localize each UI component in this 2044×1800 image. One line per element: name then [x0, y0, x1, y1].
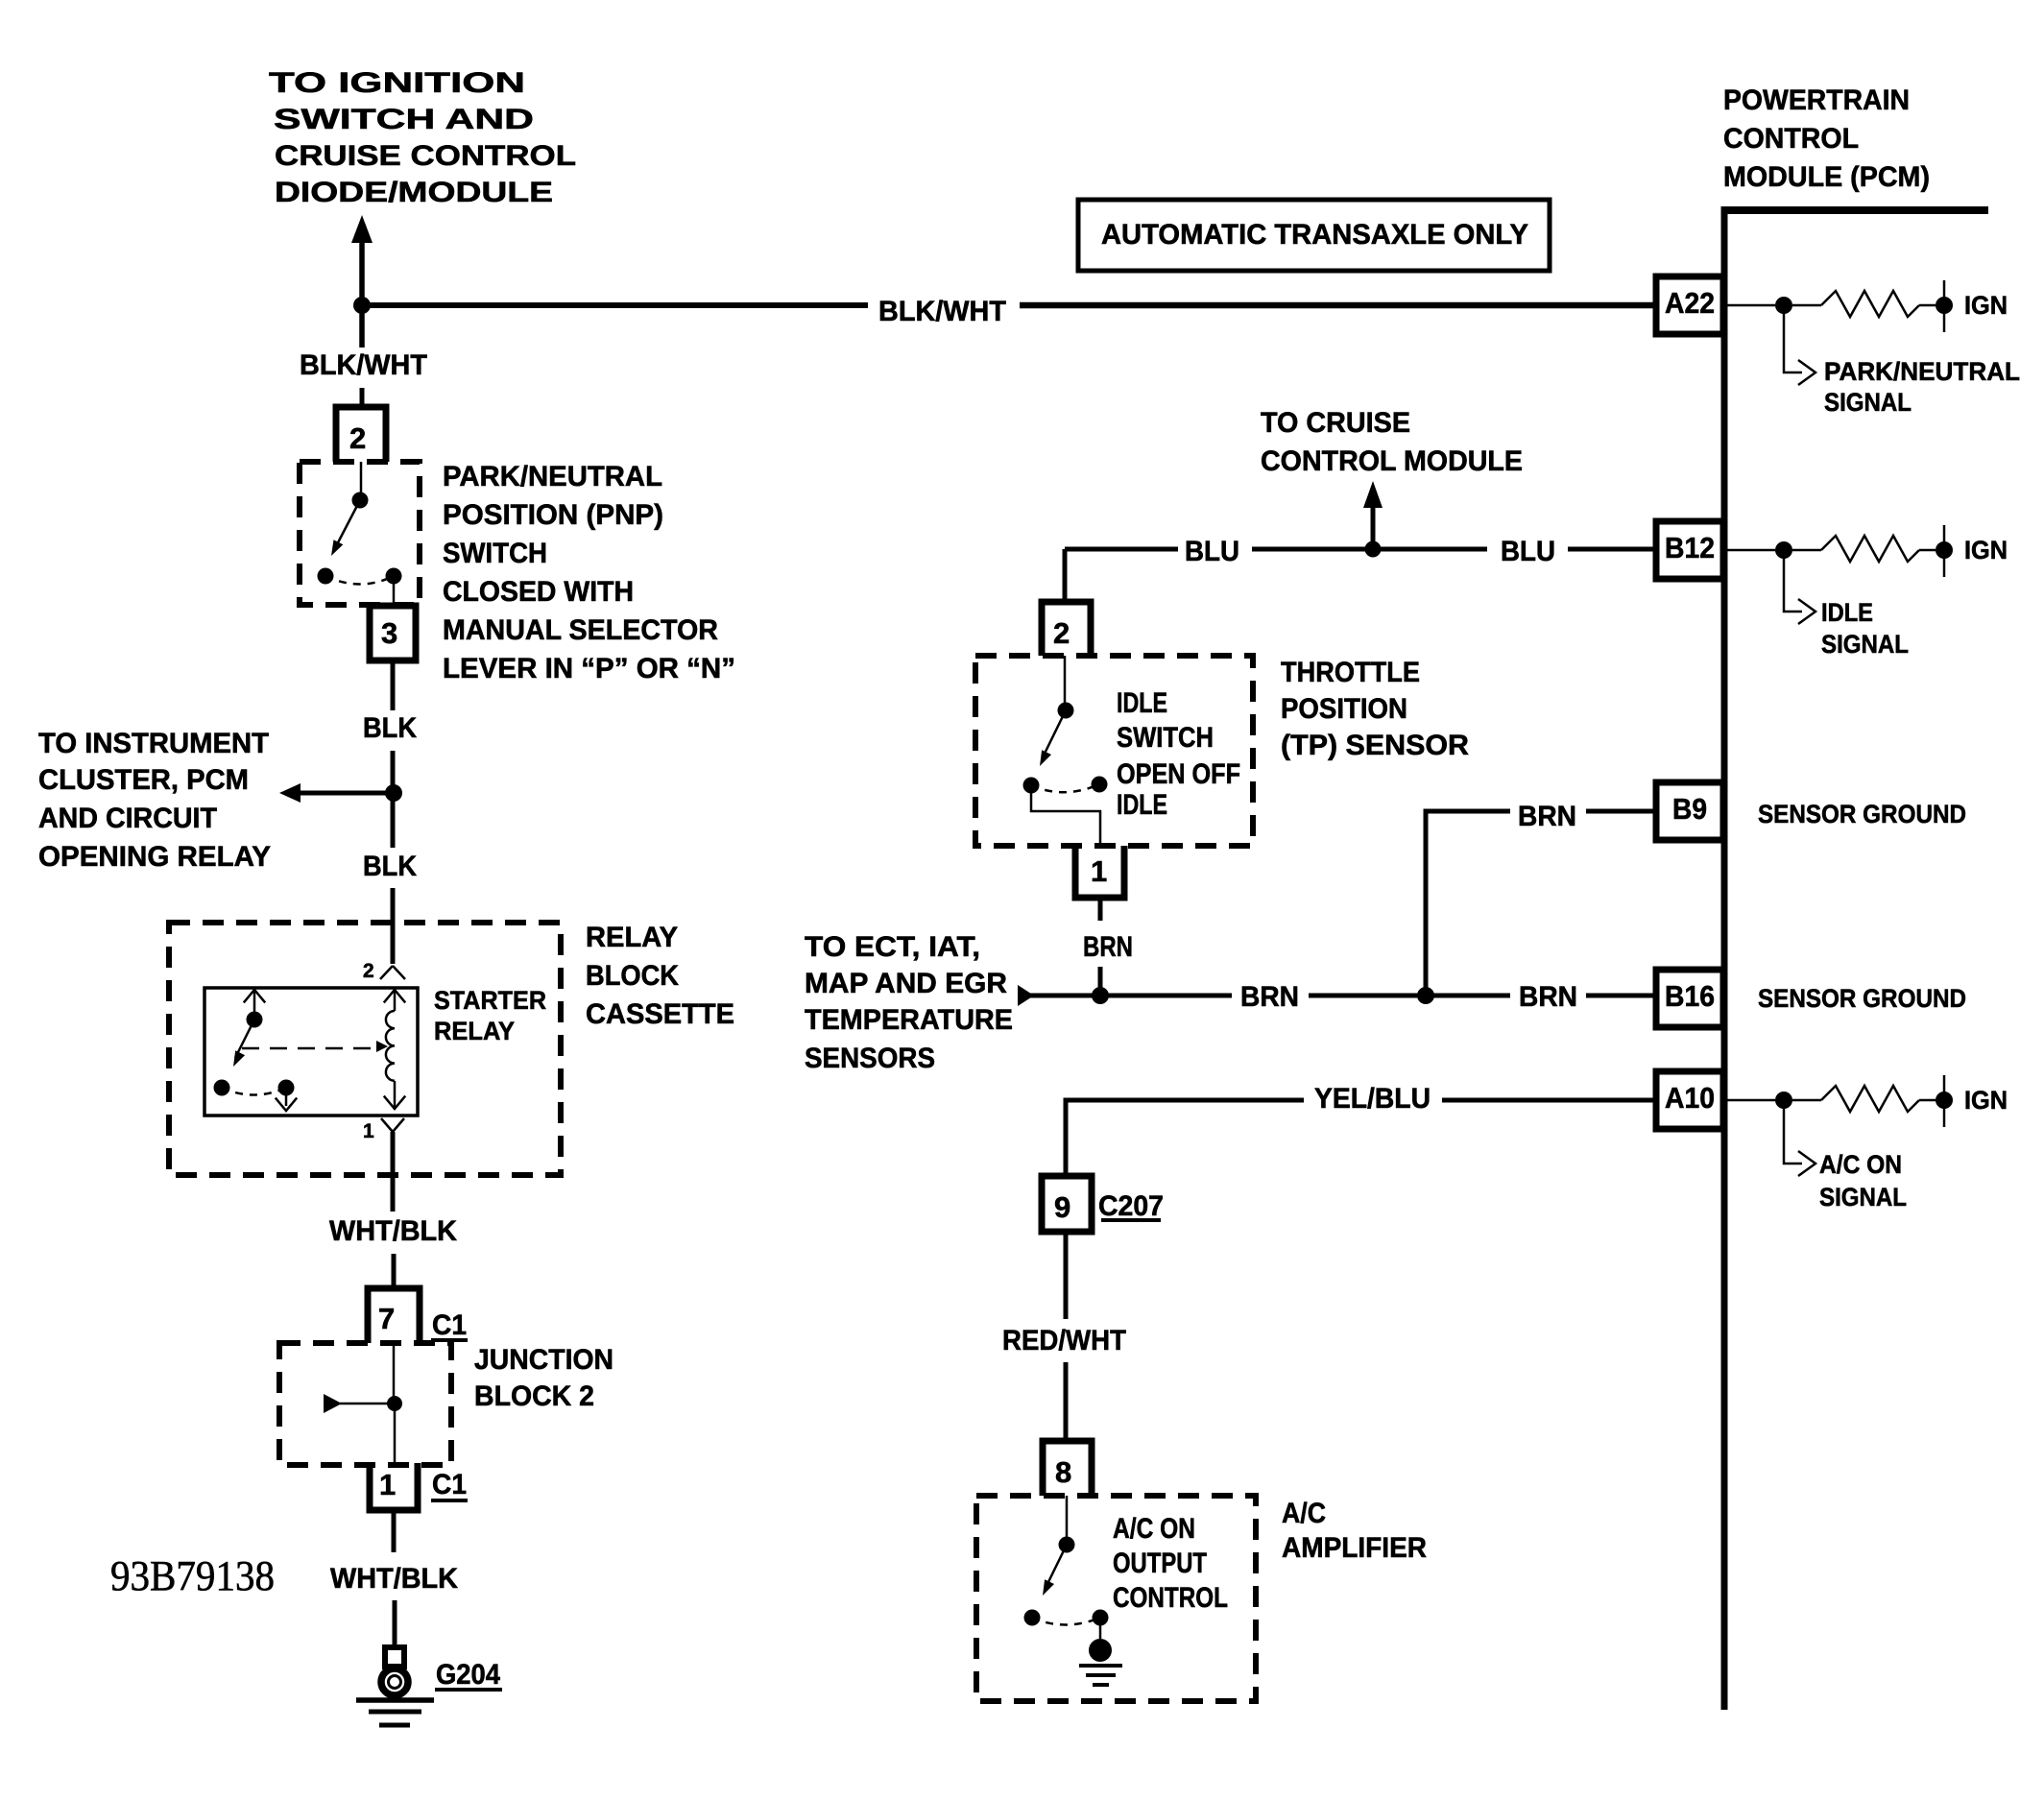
RELAY BLOCK CASSETTE dashed box: [169, 923, 561, 1175]
svg-text:B16: B16: [1665, 979, 1715, 1013]
PCM left boundary line: [1721, 206, 1728, 1710]
PNP switch contact left: [318, 568, 334, 585]
svg-text:A22: A22: [1665, 286, 1715, 320]
svg-text:SIGNAL: SIGNAL: [1824, 388, 1912, 417]
wire to cruise control module: [1371, 503, 1376, 549]
connector B12 PCM: [1656, 521, 1723, 579]
arrowhead to instrument cluster: [279, 783, 301, 803]
svg-text:OPEN OFF: OPEN OFF: [1117, 758, 1240, 790]
svg-text:BLOCK: BLOCK: [586, 960, 679, 992]
node junction BRN 1: [1092, 987, 1109, 1004]
svg-text:A/C: A/C: [1282, 1498, 1326, 1529]
svg-text:TO CRUISE: TO CRUISE: [1261, 407, 1410, 439]
svg-text:TEMPERATURE: TEMPERATURE: [805, 1004, 1013, 1036]
svg-text:IDLE: IDLE: [1117, 789, 1167, 821]
wire inside PNP switch: [360, 462, 363, 493]
PNP switch contact right: [386, 568, 402, 585]
wire inside junction block: [393, 1343, 396, 1397]
svg-text:BLK/WHT: BLK/WHT: [878, 296, 1006, 327]
svg-text:SWITCH: SWITCH: [443, 538, 547, 569]
svg-text:IDLE: IDLE: [1117, 687, 1167, 719]
svg-text:POSITION (PNP): POSITION (PNP): [443, 499, 663, 531]
connector A22 PCM: [1656, 276, 1723, 334]
connector chevron relay pin 2: [380, 966, 405, 979]
connector pin 1 TP sensor: [1075, 846, 1124, 898]
connector pin 3 PNP switch: [370, 606, 416, 660]
svg-text:AMPLIFIER: AMPLIFIER: [1282, 1532, 1427, 1564]
wire BRN segment 1: [1021, 994, 1232, 998]
svg-text:2: 2: [363, 960, 374, 982]
svg-text:BRN: BRN: [1519, 981, 1577, 1013]
PNP switch arm: [335, 500, 360, 548]
wire BRN below TP pin 1: [1098, 898, 1103, 921]
THROTTLE POSITION SENSOR dashed box: [975, 656, 1253, 846]
svg-text:STARTER: STARTER: [434, 986, 546, 1015]
svg-text:SWITCH AND: SWITCH AND: [274, 104, 534, 135]
ground G204 symbol: [385, 1647, 404, 1667]
svg-text:BLK/WHT: BLK/WHT: [300, 349, 427, 381]
svg-text:MAP AND EGR: MAP AND EGR: [805, 968, 1007, 999]
svg-text:BRN: BRN: [1518, 801, 1576, 832]
connector pin 8 A/C amplifier: [1043, 1441, 1092, 1496]
svg-text:YEL/BLU: YEL/BLU: [1314, 1083, 1431, 1115]
wire RED/WHT upper: [1064, 1232, 1069, 1319]
arrow a/c on signal: [1784, 1100, 1802, 1164]
connector B16 PCM: [1656, 970, 1723, 1027]
svg-text:WHT/BLK: WHT/BLK: [329, 1215, 457, 1247]
svg-text:TO IGNITION: TO IGNITION: [269, 67, 525, 99]
A/C switch arm arrowhead: [1043, 1579, 1054, 1596]
svg-text:C1: C1: [432, 1309, 467, 1341]
wire junction block to pin 1: [394, 1404, 397, 1463]
svg-text:G204: G204: [436, 1659, 500, 1691]
svg-text:A/C ON: A/C ON: [1113, 1513, 1195, 1545]
svg-text:IGN: IGN: [1964, 291, 2008, 320]
svg-text:BLK: BLK: [363, 712, 417, 744]
relay switch arm and contacts: [244, 990, 265, 1002]
wire BRN to B9: [1586, 809, 1657, 814]
underline C1 lower: [431, 1499, 468, 1502]
svg-text:RELAY: RELAY: [434, 1017, 515, 1045]
wire BLU down to TP pin 2: [1063, 549, 1068, 602]
wire BLU right segment: [1568, 547, 1657, 552]
svg-text:1: 1: [363, 1120, 374, 1142]
svg-text:BLU: BLU: [1185, 536, 1239, 567]
svg-text:SENSOR GROUND: SENSOR GROUND: [1758, 800, 1966, 828]
svg-text:POSITION: POSITION: [1281, 693, 1407, 725]
connector pin 2 PNP switch: [336, 407, 386, 462]
arrowhead up to cruise control module: [1363, 481, 1383, 508]
svg-text:SWITCH: SWITCH: [1117, 722, 1214, 754]
wire PNP contact to pin 3: [393, 584, 396, 607]
svg-text:SENSORS: SENSORS: [805, 1043, 935, 1074]
resistor pull-up at A22 to IGN: [1723, 304, 1775, 307]
ground inside A/C amplifier: [1089, 1639, 1112, 1662]
svg-text:CONTROL: CONTROL: [1723, 123, 1859, 155]
wire feed in junction block: [340, 1403, 389, 1405]
connector pin 7 junction block C1: [368, 1288, 420, 1343]
svg-text:C207: C207: [1098, 1190, 1164, 1222]
wire BLU left segment: [1065, 547, 1178, 552]
JUNCTION BLOCK 2 dashed box: [279, 1343, 451, 1465]
svg-text:PARK/NEUTRAL: PARK/NEUTRAL: [443, 461, 662, 492]
wire BLU middle segment: [1252, 547, 1487, 552]
arrowhead to temperature sensors: [1018, 985, 1034, 1006]
wire BLK/WHT horizontal right segment: [1020, 302, 1657, 309]
svg-text:B12: B12: [1665, 531, 1715, 564]
PCM top boundary line: [1723, 206, 1988, 214]
svg-text:SENSOR GROUND: SENSOR GROUND: [1758, 984, 1966, 1013]
wire BRN segment 2: [1309, 994, 1510, 998]
connector pin 9 C207: [1042, 1176, 1092, 1232]
wire BLK middle: [391, 751, 396, 848]
svg-text:93B79138: 93B79138: [110, 1552, 275, 1599]
svg-text:POWERTRAIN: POWERTRAIN: [1723, 84, 1910, 116]
svg-text:3: 3: [381, 616, 397, 650]
wire to instrument cluster: [298, 791, 390, 796]
svg-text:MANUAL SELECTOR: MANUAL SELECTOR: [443, 614, 718, 646]
wire BRN branch up to B9: [1426, 811, 1510, 996]
starter relay box: [204, 988, 418, 1116]
wire into junction block pin 7: [392, 1254, 397, 1288]
connector pin 2 TP sensor: [1042, 602, 1091, 656]
svg-text:CASSETTE: CASSETTE: [586, 998, 734, 1030]
AUTOMATIC TRANSAXLE ONLY note box: [1078, 200, 1550, 271]
svg-text:2: 2: [1053, 616, 1070, 650]
svg-text:BLU: BLU: [1501, 536, 1555, 567]
PNP switch pivot contact: [352, 492, 369, 509]
svg-text:IGN: IGN: [1964, 1086, 2008, 1115]
PNP switch dashed box: [300, 462, 420, 605]
svg-text:TO INSTRUMENT: TO INSTRUMENT: [38, 728, 269, 759]
resistor pull-up at A10 to IGN: [1723, 1099, 1775, 1102]
node junction block splice: [387, 1396, 402, 1411]
wire BLK into relay block: [391, 888, 396, 964]
wire YEL/BLU: [1066, 1100, 1304, 1176]
arrowhead up to ignition switch: [351, 215, 373, 243]
PNP switch throw dashed arc: [325, 576, 394, 585]
node junction BLK/WHT: [353, 297, 371, 314]
connector A10 PCM: [1656, 1071, 1723, 1129]
wire to ground G204: [393, 1600, 397, 1649]
svg-text:THROTTLE: THROTTLE: [1281, 657, 1420, 688]
svg-text:RELAY: RELAY: [586, 922, 678, 953]
svg-text:RED/WHT: RED/WHT: [1002, 1325, 1126, 1356]
svg-text:TO ECT, IAT,: TO ECT, IAT,: [805, 931, 980, 963]
node junction BLK: [385, 784, 402, 802]
svg-text:CLUSTER, PCM: CLUSTER, PCM: [38, 764, 249, 796]
svg-text:C1: C1: [432, 1469, 467, 1500]
wire BLK/WHT horizontal to PCM A22: [362, 302, 868, 308]
svg-text:DIODE/MODULE: DIODE/MODULE: [275, 177, 553, 208]
svg-text:A/C ON: A/C ON: [1819, 1150, 1902, 1179]
resistor pull-up at B12 to IGN: [1723, 549, 1775, 552]
svg-text:A10: A10: [1665, 1081, 1715, 1115]
wire WHT/BLK below junction block: [392, 1510, 397, 1552]
wire BLK below pin 3: [391, 660, 396, 710]
svg-text:BRN: BRN: [1083, 931, 1133, 963]
svg-text:AND CIRCUIT: AND CIRCUIT: [38, 803, 217, 834]
svg-text:SIGNAL: SIGNAL: [1819, 1183, 1907, 1212]
svg-text:IDLE: IDLE: [1821, 598, 1873, 627]
svg-text:MODULE (PCM): MODULE (PCM): [1723, 161, 1930, 193]
svg-text:CLOSED WITH: CLOSED WITH: [443, 576, 634, 608]
svg-text:B9: B9: [1672, 792, 1707, 826]
underline C1 upper: [431, 1338, 468, 1342]
svg-text:(TP) SENSOR: (TP) SENSOR: [1281, 730, 1469, 761]
arrow idle signal: [1784, 550, 1802, 612]
svg-text:9: 9: [1054, 1190, 1070, 1224]
underline G204: [435, 1688, 502, 1692]
wire into PNP pin 2: [360, 388, 365, 407]
svg-text:8: 8: [1055, 1455, 1071, 1489]
svg-text:BLK: BLK: [363, 851, 417, 882]
relay coil: [384, 990, 405, 1002]
svg-text:1: 1: [1091, 854, 1107, 888]
relay mechanical link dashed: [242, 1047, 376, 1050]
wire BRN segment 3 to B16: [1586, 994, 1657, 998]
connector pin 1 junction block C1: [370, 1463, 418, 1510]
svg-text:CONTROL: CONTROL: [1113, 1582, 1228, 1614]
wire RED/WHT lower: [1064, 1362, 1069, 1441]
svg-text:AUTOMATIC TRANSAXLE ONLY: AUTOMATIC TRANSAXLE ONLY: [1101, 219, 1528, 251]
svg-text:CRUISE CONTROL: CRUISE CONTROL: [275, 140, 576, 172]
arrow park/neutral signal: [1784, 305, 1802, 372]
wire BRN to junction: [1098, 967, 1103, 996]
svg-text:7: 7: [378, 1302, 395, 1335]
node junction BRN 2: [1417, 987, 1434, 1004]
svg-text:BRN: BRN: [1240, 981, 1299, 1013]
wire WHT/BLK below relay: [391, 1132, 396, 1212]
svg-text:OPENING RELAY: OPENING RELAY: [38, 841, 271, 873]
TP switch arm arrowhead: [1040, 750, 1051, 766]
wire BLK/WHT vertical upper: [359, 238, 365, 348]
svg-text:OUTPUT: OUTPUT: [1113, 1548, 1207, 1579]
svg-text:PARK/NEUTRAL: PARK/NEUTRAL: [1824, 357, 2020, 386]
svg-text:CONTROL MODULE: CONTROL MODULE: [1261, 445, 1523, 477]
underline C207: [1101, 1218, 1161, 1222]
A/C on output control switch: [1066, 1496, 1069, 1537]
svg-text:BLOCK 2: BLOCK 2: [474, 1380, 594, 1412]
arrowhead feed in junction block: [324, 1394, 342, 1413]
svg-text:JUNCTION: JUNCTION: [474, 1344, 613, 1376]
svg-text:2: 2: [349, 421, 366, 455]
svg-text:1: 1: [379, 1468, 396, 1501]
connector chevron relay pin 1: [381, 1118, 404, 1132]
TP idle switch: [1064, 656, 1067, 704]
svg-text:LEVER IN “P” OR “N”: LEVER IN “P” OR “N”: [443, 653, 735, 684]
connector B9 PCM: [1656, 782, 1723, 840]
wire YEL/BLU to A10: [1442, 1098, 1657, 1103]
svg-text:IGN: IGN: [1964, 536, 2008, 564]
PNP switch arm arrowhead: [331, 540, 343, 556]
node junction BLU: [1365, 541, 1382, 558]
svg-text:WHT/BLK: WHT/BLK: [330, 1563, 458, 1595]
A/C AMPLIFIER dashed box: [976, 1496, 1256, 1701]
svg-text:SIGNAL: SIGNAL: [1821, 630, 1909, 659]
